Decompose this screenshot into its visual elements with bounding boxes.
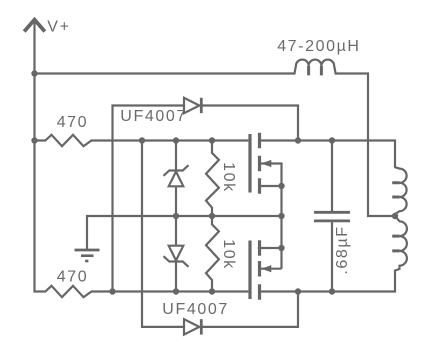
svg-text:UF4007: UF4007: [162, 301, 229, 318]
svg-text:470: 470: [57, 268, 89, 285]
svg-text:.68µF: .68µF: [334, 225, 351, 274]
svg-text:UF4007: UF4007: [120, 108, 187, 125]
svg-text:V+: V+: [47, 19, 70, 36]
svg-text:470: 470: [57, 114, 88, 131]
svg-text:10k: 10k: [220, 239, 237, 270]
svg-text:47-200µH: 47-200µH: [277, 38, 360, 55]
svg-text:10k: 10k: [220, 162, 237, 193]
